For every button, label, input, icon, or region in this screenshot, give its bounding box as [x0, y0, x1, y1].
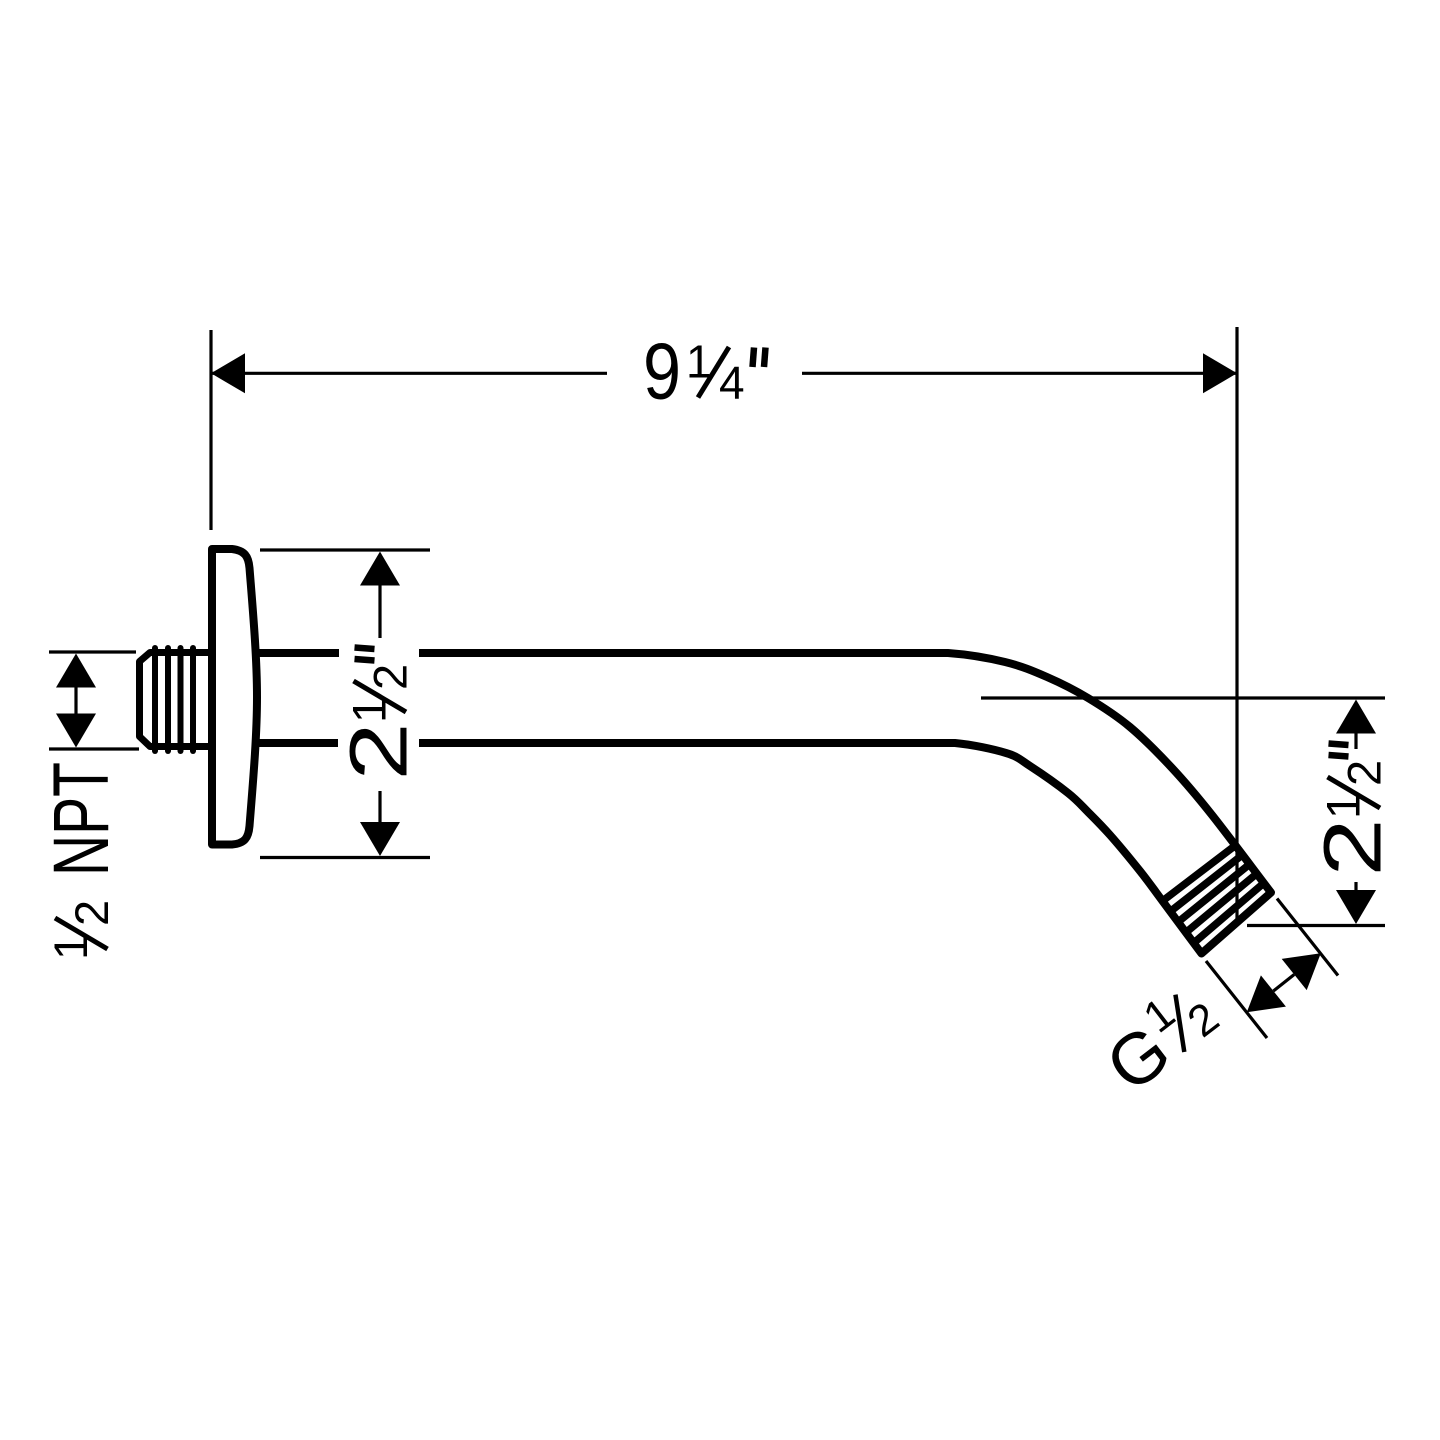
svg-text:2: 2	[1308, 819, 1399, 877]
svg-text:2: 2	[364, 664, 417, 690]
svg-text:2: 2	[334, 723, 425, 781]
svg-text:NPT: NPT	[36, 762, 125, 876]
svg-text:2: 2	[65, 900, 118, 926]
svg-text:4: 4	[719, 357, 745, 409]
svg-text:2: 2	[1338, 760, 1391, 786]
svg-text:9: 9	[643, 327, 681, 416]
